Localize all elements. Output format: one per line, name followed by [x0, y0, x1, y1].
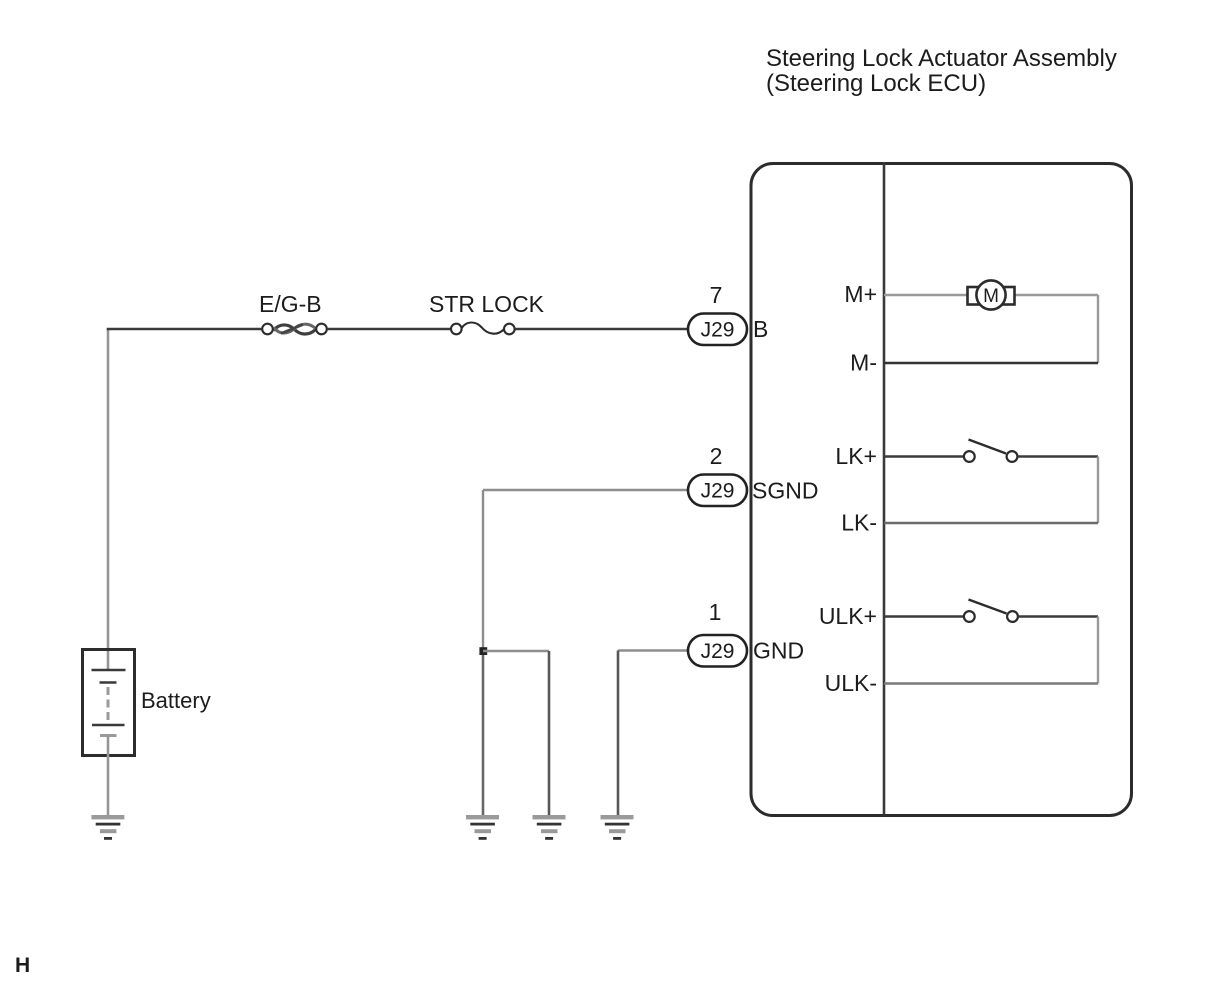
- wire: branch from junction to second ground: [483, 650, 549, 652]
- wire: SGND vertical down to junction: [482, 490, 484, 651]
- connector J29 pin 1 (GND): [688, 635, 747, 667]
- wire: battery positive feed vertical: [107, 329, 110, 670]
- svg-text:7: 7: [710, 282, 723, 308]
- motor M1: [968, 280, 1015, 309]
- junction node on SGND ground net: [479, 647, 487, 655]
- wire: ULK loop right vertical: [1097, 617, 1099, 684]
- connector J29 pin 7 (B): [688, 314, 747, 346]
- wire: battery to fuse E/G-B horizontal: [107, 328, 262, 330]
- fusible link E/G-B: [262, 324, 327, 335]
- wire: LK+ internal right segment: [1018, 455, 1099, 457]
- wire: GND pin to third ground: [618, 649, 688, 651]
- wire: M loop right vertical: [1097, 295, 1099, 363]
- wire: ULK+ internal left segment: [884, 615, 964, 617]
- ground symbol (SGND branch): [533, 815, 566, 840]
- svg-text:1: 1: [709, 599, 722, 625]
- wire: SGND horizontal: [483, 489, 688, 491]
- wire: LK+ internal left segment: [884, 455, 964, 457]
- ECU box U1 (Steering Lock ECU outline): [751, 164, 1132, 816]
- svg-text:M+: M+: [844, 281, 877, 307]
- lock switch S1 (LK): [964, 440, 1018, 462]
- svg-text:M: M: [983, 286, 999, 307]
- title: Steering Lock Actuator Assembly (Steering Lock ECU): [766, 45, 1117, 97]
- svg-text:SGND: SGND: [752, 478, 818, 504]
- svg-text:LK+: LK+: [835, 443, 877, 469]
- ECU internal divider line: [883, 162, 886, 816]
- svg-text:STR LOCK: STR LOCK: [429, 291, 545, 317]
- unlock switch S2 (ULK): [964, 600, 1018, 622]
- connector J29 pin 2 (SGND): [688, 475, 747, 507]
- svg-text:2: 2: [710, 443, 723, 469]
- svg-text:E/G-B: E/G-B: [259, 291, 322, 317]
- wire: M- internal: [884, 362, 1098, 364]
- svg-text:(Steering Lock ECU): (Steering Lock ECU): [766, 70, 986, 97]
- ground symbol (GND pin net): [601, 815, 634, 840]
- wire: junction down to first ground: [482, 651, 485, 816]
- svg-text:GND: GND: [753, 638, 804, 664]
- wire: ULK+ internal right segment: [1018, 615, 1098, 617]
- svg-text:J29: J29: [701, 319, 735, 342]
- svg-text:ULK-: ULK-: [825, 670, 877, 696]
- svg-text:H: H: [15, 954, 30, 977]
- wire: fuse E/G-B to fuse STR LOCK: [327, 328, 451, 330]
- wire: battery negative to ground: [107, 736, 110, 817]
- wire: LK- internal: [884, 522, 1098, 524]
- battery B1: [83, 650, 135, 756]
- svg-text:Steering Lock Actuator Assembl: Steering Lock Actuator Assembly: [766, 45, 1117, 72]
- wire: M+ internal: [884, 294, 1098, 296]
- wire: ULK- internal: [884, 682, 1098, 684]
- svg-text:ULK+: ULK+: [819, 603, 877, 629]
- wire: fuse STR LOCK to connector J29 pin 7: [515, 328, 688, 330]
- svg-text:B: B: [753, 316, 768, 342]
- ground symbol (SGND net, under junction): [466, 815, 499, 840]
- svg-text:M-: M-: [850, 350, 877, 376]
- ground symbol (battery): [91, 815, 124, 840]
- svg-text:LK-: LK-: [841, 510, 877, 536]
- svg-text:Battery: Battery: [141, 688, 211, 713]
- fuse STR LOCK: [451, 322, 515, 334]
- svg-text:J29: J29: [701, 640, 735, 663]
- wire: LK loop right vertical: [1097, 457, 1099, 524]
- svg-text:J29: J29: [701, 480, 735, 503]
